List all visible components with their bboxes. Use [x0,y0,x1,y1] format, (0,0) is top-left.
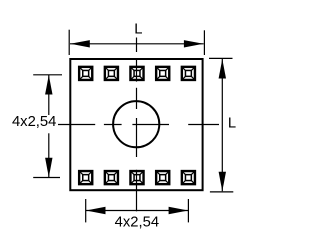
dimension L right: bottom arrowhead [219,172,226,192]
pad 10 (bottom row) [182,171,195,184]
pad 2 (top row) [105,67,118,80]
pad 1 (top row) [79,67,92,80]
pad 3 (top row, center) [130,67,143,80]
dimension L right: extension lines [209,58,233,192]
dimension 4x2,54 bottom: extension lines [86,199,189,222]
dimension L right: dimension line [221,59,223,191]
dimension 4x2,54 bottom: left arrowhead [86,207,106,214]
pad 7 (bottom row) [105,171,118,184]
pad 8 (bottom row, center) [130,171,143,184]
dimension 4x2,54 bottom: right arrowhead [169,207,189,214]
pad 4 (top row) [156,67,169,80]
dimension L right: top arrowhead [219,59,226,79]
pad 5 (top row) [182,67,195,80]
svg-text:4x2,54: 4x2,54 [115,215,159,231]
dimension L top: left arrowhead [70,40,90,47]
svg-text:4x2,54: 4x2,54 [12,114,56,130]
dimension 4x2,54 bottom: dimension line [86,210,188,212]
dimension L right: label [228,115,236,131]
dimension 4x2,54 left: bottom arrowhead [45,158,52,178]
dimension 4x2,54 left: extension lines [33,75,62,178]
dimension L top: right arrowhead [184,40,204,47]
vertical centerline [136,38,138,212]
pad 9 (bottom row) [156,171,169,184]
dimension L top: dimension line [70,43,204,45]
dimension 4x2,54 left: top arrowhead [45,75,52,95]
horizontal centerline [58,124,219,126]
dimension L top: label [134,22,142,38]
dimension 4x2,54 left: dimension line [48,75,50,177]
pad 6 (bottom row) [79,171,92,184]
mounting hole circle [113,101,159,147]
dimension L top: extension lines [69,30,204,55]
dimension 4x2,54 left: label [12,114,56,130]
svg-text:L: L [134,22,142,38]
svg-text:L: L [228,115,236,131]
package outline [70,59,202,190]
dimension 4x2,54 bottom: label [115,215,159,231]
